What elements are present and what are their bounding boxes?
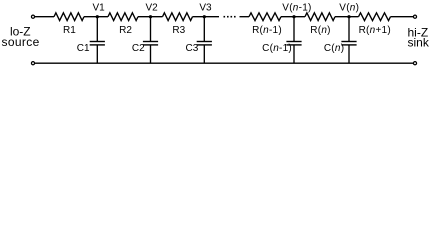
svg-text:C1: C1 [77,43,90,54]
svg-text:V(n): V(n) [339,3,359,14]
svg-text:R(n+1): R(n+1) [359,25,391,36]
svg-text:R3: R3 [172,25,185,36]
svg-text:R(n-1): R(n-1) [252,25,282,36]
svg-text:V(n-1): V(n-1) [282,3,311,14]
svg-text:C(n): C(n) [324,43,344,54]
svg-text:C2: C2 [132,43,145,54]
svg-text:V1: V1 [92,3,105,14]
svg-text:C(n-1): C(n-1) [262,43,292,54]
svg-text:V2: V2 [145,3,158,14]
svg-text:R(n): R(n) [310,25,330,36]
svg-text:C3: C3 [186,43,199,54]
svg-text:source: source [2,35,40,49]
svg-text:R1: R1 [63,25,76,36]
svg-text:R2: R2 [119,25,132,36]
svg-text:V3: V3 [199,3,212,14]
svg-text:sink: sink [408,36,430,50]
